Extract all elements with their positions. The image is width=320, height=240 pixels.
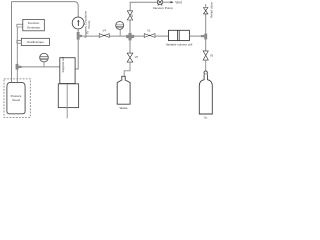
wire: valve V6 down with jog to waste bottle bbox=[124, 62, 130, 76]
svg-text:Variable volume cell: Variable volume cell bbox=[166, 42, 193, 46]
vessel: pressure vessel bbox=[7, 82, 25, 113]
vessel: waste bottle bbox=[117, 76, 130, 104]
wire: gauge PT1 stem bbox=[43, 62, 45, 67]
wire: pipe from top elbow into pump bbox=[77, 6, 79, 18]
wire: drain line through holder bbox=[66, 84, 68, 118]
connector: oscilloscope cable connector bbox=[17, 40, 22, 43]
svg-text:Generator: Generator bbox=[27, 26, 41, 30]
wire: branch pipe from pump tee to valve V4 bbox=[82, 35, 99, 37]
svg-text:V4: V4 bbox=[103, 29, 107, 33]
wire: pipe valve V4 to cross bbox=[109, 35, 126, 37]
wire: valve V5 down to N2 cylinder bbox=[205, 60, 207, 71]
vessel: sapphire cell box bbox=[60, 57, 75, 84]
wire: valve V1 to variable volume cell bbox=[155, 35, 168, 37]
wire: circulation loop top pipe with rounded elbow to pump bbox=[12, 2, 79, 6]
svg-text:Oscilloscope: Oscilloscope bbox=[27, 40, 44, 44]
wire: variable volume cell to right tee bbox=[189, 35, 201, 37]
vessel: variable volume cell with piston bbox=[169, 30, 190, 40]
svg-text:Waste: Waste bbox=[120, 106, 128, 110]
svg-text:Vent: Vent bbox=[175, 0, 181, 4]
instrument box: Function Generator bbox=[23, 19, 45, 30]
wire: valve V2 up and over to vacuum pump bbox=[130, 2, 157, 11]
wire: N2 line tee down to valve V5 bbox=[205, 39, 207, 50]
valve V5: N2 supply valve bbox=[203, 51, 208, 60]
wire: signal cable from instruments down through tee into vessel bbox=[16, 27, 18, 85]
pump P1: magnetic circulation pump circle with up arrow bbox=[72, 17, 84, 29]
wire: N2 line up to relief valve bbox=[205, 14, 207, 34]
vessel: cell holder box below sapphire cell bbox=[58, 84, 78, 108]
instrument box: Oscilloscope bbox=[21, 38, 49, 45]
label: Magnetic Circulation Pump (vertical) bbox=[83, 10, 91, 38]
connector: function generator cable connector bbox=[17, 24, 23, 27]
svg-text:Function: Function bbox=[28, 21, 40, 25]
valve V2: vertical valve to vacuum pump bbox=[127, 11, 132, 20]
pump: vacuum pump symbol bbox=[157, 0, 162, 6]
wire: stub above relief valve bbox=[205, 4, 207, 8]
valve V6: vertical valve to waste bbox=[127, 53, 133, 62]
wire: pipe from vessel tee to sapphire cell bbox=[22, 66, 60, 68]
svg-text:Pressure: Pressure bbox=[11, 94, 22, 98]
vessel: N2 gas cylinder bbox=[199, 71, 212, 114]
wire: cross to valve V1 bbox=[134, 35, 144, 37]
wire: pump line continues down to sapphire cell elbow bbox=[75, 40, 78, 69]
thermostat dashed enclosure bbox=[4, 79, 30, 118]
tee fitting on N2 line bbox=[201, 34, 207, 40]
svg-text:V2: V2 bbox=[130, 14, 134, 18]
svg-text:Vessel: Vessel bbox=[12, 98, 20, 102]
svg-text:Sapphire cell: Sapphire cell bbox=[61, 57, 65, 73]
valve V4: bowtie valve left of cross bbox=[99, 33, 109, 37]
cross fitting (4-way junction) bbox=[126, 33, 134, 40]
svg-text:Pump: Pump bbox=[87, 20, 91, 28]
svg-text:Relief Valve: Relief Valve bbox=[210, 2, 214, 18]
tee fitting at pump line bbox=[77, 32, 82, 40]
gauge PT1: pressure transducer circle bbox=[40, 53, 49, 62]
svg-text:V6: V6 bbox=[135, 55, 139, 59]
gauge PT2: pressure transducer near cross bbox=[116, 21, 124, 29]
wire: vacuum pump to vent arrow bbox=[163, 1, 174, 3]
svg-text:V5: V5 bbox=[210, 54, 214, 58]
wire: cross down to valve V6 bbox=[129, 40, 131, 53]
svg-text:Vacuum Pump: Vacuum Pump bbox=[153, 6, 173, 10]
wire: cross up to valve V2 bbox=[129, 20, 131, 34]
svg-text:N₂: N₂ bbox=[204, 115, 207, 119]
svg-text:V1: V1 bbox=[147, 28, 151, 32]
valve: relief/metering valve on N2 top line bbox=[204, 8, 208, 14]
wire: gauge PT2 stem bbox=[119, 29, 121, 36]
wire: pump outlet down to tee bbox=[77, 29, 79, 32]
tee fitting on vessel line bbox=[16, 64, 22, 70]
valve V1: bowtie valve before variable volume cell bbox=[144, 33, 155, 37]
wire: circulation loop left pipe down to pressure vessel bbox=[11, 2, 13, 86]
